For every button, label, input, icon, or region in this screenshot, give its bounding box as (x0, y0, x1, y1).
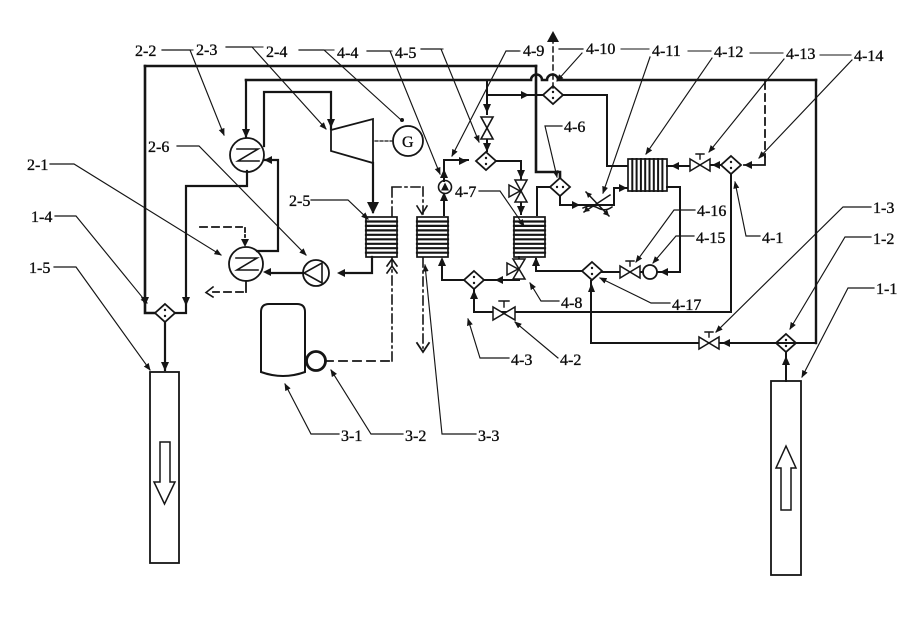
wire oil dashed pump3-2 to riser (325, 360, 392, 362)
wire x487 down through relief valve to diamond (486, 95, 488, 114)
chevron oil down into HX2 top (417, 206, 427, 214)
svg-text:4-2: 4-2 (560, 352, 581, 369)
arrow up above pump 4-7 (440, 169, 448, 178)
svg-text:1-1: 1-1 (876, 281, 897, 298)
svg-text:4-17: 4-17 (672, 297, 701, 314)
arrow up into pump 4-7 (440, 192, 448, 201)
expansion device 4-11 (star) (583, 192, 612, 216)
arrow on y343 into valve (722, 339, 730, 347)
arrow into left column (161, 362, 169, 371)
arrow into diamond474 right (495, 276, 503, 284)
circulation pump 4-7 (small) (439, 181, 452, 194)
arrow up into HX3 bottom (532, 257, 540, 266)
storage tank 3-1 (261, 304, 305, 376)
wire HX1 bottom to pump (344, 257, 372, 273)
arrow into circle 4-15 (660, 268, 668, 276)
svg-text:4-6: 4-6 (564, 119, 585, 136)
FLOW ARROWS (141, 31, 790, 371)
svg-text:2-6: 2-6 (148, 139, 169, 156)
leader 4-10 to vent line (557, 49, 583, 81)
leader 4-8 to 3way valve (530, 283, 559, 301)
wire diamond 4-17 left to HX3 bottom (536, 259, 582, 271)
svg-text:4-14: 4-14 (854, 48, 883, 65)
wire turbine exhaust to HX1 (372, 163, 374, 212)
leader 4-4 to pump 4-7 (367, 51, 440, 174)
metering diamond 4-6 (x560,y187) (550, 178, 570, 196)
arrow up into HX2 bottom (438, 257, 446, 266)
relief valve 4-5 (vertical hourglass at x487) (481, 117, 493, 139)
metering diamond (x474,y280) (464, 271, 484, 289)
boiler heat-exchanger circle 2-6 (lower, heat supply) (229, 247, 263, 281)
wire right riser x=816 (815, 80, 817, 343)
arrow down into HX3 top (517, 206, 525, 215)
wire oil dash-dot riser x=392 (391, 187, 393, 361)
DASHED / DASH-DOT LINES (200, 42, 765, 361)
svg-text:2-1: 2-1 (27, 157, 48, 174)
wire radiator right-top to valve 4-13 (667, 165, 691, 167)
valve 4-16 (bowtie on y272) (620, 261, 640, 278)
svg-text:1-4: 1-4 (31, 209, 52, 226)
wire steam line circle1 to turbine (264, 92, 331, 146)
wire condensate return x=186 (175, 171, 247, 313)
svg-text:3-3: 3-3 (478, 428, 499, 445)
svg-text:2-5: 2-5 (289, 193, 310, 210)
leader 4-5 to diamond486 (421, 49, 479, 142)
wire diamond592 bottom through y312 to y343 (590, 281, 592, 343)
svg-text:4-10: 4-10 (586, 41, 615, 58)
oil pump 3-2 (307, 352, 326, 371)
valve 1-3 (bowtie on y343) (699, 332, 719, 349)
wire vent diamond right to radiator left-top (563, 95, 627, 166)
leader 4-13 to valve (709, 59, 784, 152)
condensate pump 2-3 (303, 260, 329, 286)
arrow from dashed into diamond 4-1 (744, 161, 752, 169)
wire bus B stub down x=487 (486, 80, 488, 95)
leader 1-3 to valve y343 (716, 207, 871, 332)
wire HX3 bottom-left into valve 4-8 (518, 257, 520, 261)
wire main line y=343 (591, 342, 816, 344)
wire diamond 4-6 bottom to star (560, 197, 614, 205)
metering diamond 4-1 (x731,y165) (721, 156, 741, 174)
svg-text:1-5: 1-5 (29, 260, 50, 277)
leader 4-7 to HX3 (479, 191, 524, 226)
svg-text:2-3: 2-3 (196, 42, 217, 59)
wire x487 corner to vent diamond (487, 94, 542, 96)
metering diamond 1-2 (x786,y343) (776, 334, 796, 352)
wire diamond474 left to HX2 bottom (442, 262, 464, 280)
arrow exhaust into HX1 (large) (367, 202, 379, 214)
wire bus B (lower header, hops at x=536 and x=553) (246, 75, 816, 81)
svg-text:4-13: 4-13 (786, 46, 815, 63)
leader 4-9 (452, 51, 519, 156)
leader 1-2 to diamond786 (790, 237, 871, 329)
wire thick drop x=536 to diamond 4-6 (536, 66, 560, 177)
arrow turbine inlet (327, 119, 335, 128)
leader 1-1 to right column (802, 288, 874, 377)
wire circle2 to circle1 riser (257, 160, 278, 251)
arrow heat supply down into circle2 (241, 239, 249, 247)
wire heat supply dashed into circle2 (200, 226, 242, 228)
wire pump to circle2 (268, 272, 303, 274)
leader 2-4 to generator (299, 50, 404, 122)
wire valve 4-8 to diamond474 (484, 277, 519, 280)
svg-text:3-1: 3-1 (341, 428, 362, 445)
arrow down to 3way valve (517, 170, 525, 179)
arrow down to relief valve (483, 104, 491, 113)
leader 3-3 to HX2 (425, 265, 476, 434)
wire oil dash-dot top y=187 (392, 186, 423, 188)
svg-text:4-15: 4-15 (696, 230, 725, 247)
arrow into radiator bottom-left (619, 184, 627, 192)
wire diamond474 bottom to line y312 (473, 289, 475, 312)
wire HX2 top to pump 4-7 (443, 197, 445, 215)
LEADERS (50, 47, 874, 434)
arrow down into diamond486 top (483, 143, 491, 152)
arrow up into diamond 4-17 bottom (588, 283, 595, 292)
exhaust column (left, 1-5) with hollow down arrow (150, 372, 179, 563)
svg-text:G: G (402, 134, 414, 151)
valve 4-2 (bowtie on y312) (493, 301, 515, 320)
label row connector dashes (162, 47, 851, 55)
arrow into valve 4-13 right (712, 161, 720, 169)
wire right column loop vertical x=731 (730, 175, 732, 312)
leader 4-15 to circle (653, 236, 694, 263)
leader 2-2 to circle1 (162, 50, 224, 135)
wire left main down x=145 (145, 66, 155, 313)
wire valve 4-16 to diamond 4-17 (602, 271, 620, 273)
arrow into circle1 top (242, 129, 250, 138)
svg-text:4-1: 4-1 (762, 230, 783, 247)
leader 4-16 to valve (636, 210, 695, 262)
svg-text:4-3: 4-3 (511, 352, 532, 369)
arrow into vent diamond from left (521, 91, 529, 99)
arrow into circle1 right (264, 156, 272, 164)
leader 1-4 to left diamond (55, 216, 147, 303)
leader 4-12 to radiator (646, 58, 712, 154)
generator G (393, 126, 423, 156)
wire pump 4-7 up to corner and diamond (444, 160, 468, 181)
wire 4-15 circle to valve 4-16 (640, 271, 643, 273)
wire star to radiator left-bottom (614, 188, 627, 205)
wire radiator right-bottom down to 4-15 circle (658, 187, 680, 272)
leader 4-17 to diamond (600, 278, 670, 303)
leader 4-6 to diamond (545, 126, 562, 177)
svg-text:4-16: 4-16 (697, 203, 726, 220)
wire dashed control drop x=765 (764, 82, 766, 157)
intake column (right, 1-1) with hollow up arrow (771, 381, 801, 575)
wire diamond 4-6 left to HX3 top-right (537, 187, 550, 215)
valve 4-13 (bowtie on y165) (690, 154, 710, 171)
leader 2-3 to turbine (226, 47, 326, 129)
vent diamond (x553,y95) (543, 86, 563, 104)
heat exchanger 2-5 (HX1) (366, 217, 397, 257)
leader 4-11 to star (603, 57, 650, 193)
arrow into pump 2-3 (337, 269, 345, 277)
svg-text:4-9: 4-9 (523, 43, 544, 60)
wire vent dashed with arrow up (552, 42, 554, 88)
chevron oil line end arrow (417, 343, 429, 352)
leader 1-5 to left column (54, 267, 150, 370)
leader 4-1 to diamond731 (735, 182, 760, 236)
wire column top to diamond786 (785, 353, 787, 381)
arrow up into diamond786 (782, 356, 790, 365)
arrow into radiator right-top (671, 162, 679, 170)
leader 4-14 to dashed drop (759, 60, 852, 158)
leader 4-3 to junction (468, 319, 509, 358)
arrow vent top (large) (547, 31, 559, 42)
radiator / finned cooler 4-12 (628, 159, 667, 191)
open chevron arrows (206, 206, 429, 352)
wire heat return dashed out of circle2 (245, 281, 247, 292)
svg-text:1-2: 1-2 (873, 231, 894, 248)
wire left diamond to column (164, 322, 166, 370)
turbine 2-4 (331, 119, 373, 163)
svg-text:4-4: 4-4 (337, 45, 358, 62)
wire feed into boiler circle1 (245, 80, 247, 137)
leader 3-2 to oil pump (331, 370, 403, 434)
arrow down return x186 (182, 297, 190, 306)
leader 2-1 to circle2 (50, 164, 221, 255)
svg-text:3-2: 3-2 (405, 428, 426, 445)
arrow down left main x145 (141, 297, 149, 306)
leader 2-5 to HX1 (311, 200, 368, 219)
svg-text:1-3: 1-3 (873, 200, 894, 217)
arrow into circle2 right (263, 268, 271, 276)
generator shaft dashed (375, 140, 392, 142)
wire bus A (upper header) (145, 65, 536, 68)
arrow into diamond486 left (459, 157, 467, 165)
three-way valve above HX3 (x521,y191) (509, 180, 527, 202)
metering diamond left (1-4) (155, 304, 175, 322)
wire valve 4-13 to diamond731 (709, 164, 721, 166)
heat exchanger 3-3 (HX2) (417, 217, 448, 257)
PIPES (145, 66, 816, 381)
metering diamond 4-4 (x486,y161) (476, 152, 496, 170)
leader 2-6 to pump (177, 146, 306, 255)
svg-text:4-5: 4-5 (395, 45, 416, 62)
arrow into star from diamond 4-6 (572, 201, 580, 209)
svg-text:4-8: 4-8 (561, 295, 582, 312)
arrow up into diamond474 bottom (470, 290, 478, 299)
boiler heat-exchanger circle (upper, target of 2-2) (230, 138, 264, 172)
svg-text:4-7: 4-7 (455, 184, 476, 201)
svg-text:2-4: 2-4 (266, 44, 287, 61)
leader 4-2 to valve (515, 322, 558, 358)
wire main line y=312 (474, 311, 731, 313)
leader 3-1 to tank (285, 384, 339, 434)
small device circle 4-15 (643, 265, 657, 279)
svg-text:4-12: 4-12 (714, 44, 743, 61)
chevron heat return left (206, 287, 213, 297)
wire diamond486 right to 3way valve to HX3 top (496, 161, 521, 179)
three-way valve 4-8 (x519,y269) (507, 259, 525, 279)
svg-text:2-2: 2-2 (135, 43, 156, 60)
svg-text:4-11: 4-11 (652, 43, 681, 60)
wire oil dash-dot drop x=423 (422, 187, 424, 348)
metering diamond 4-17 (x592,y271) (582, 262, 602, 280)
chevron oil up under HX1 (387, 259, 397, 273)
heat exchanger 4-7 (HX3) (514, 217, 545, 257)
